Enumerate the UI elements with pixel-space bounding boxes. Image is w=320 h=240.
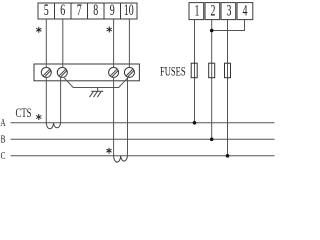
polarity asterisk near wire 9 xyxy=(107,27,112,33)
svg-text:B: B xyxy=(1,133,6,144)
wire terminal9 to S3 xyxy=(113,19,115,67)
ground xyxy=(90,88,104,98)
wire terminal2 to phase B xyxy=(211,20,213,140)
phase line B xyxy=(11,138,275,140)
screw terminal S4 xyxy=(124,67,134,77)
polarity asterisk CT-A xyxy=(36,114,41,120)
wire terminal1 to phase A xyxy=(194,20,196,123)
wire S4 to CT-C right xyxy=(127,77,129,156)
junction dot wire2-wire4 xyxy=(210,29,214,33)
svg-text:10: 10 xyxy=(124,1,134,19)
junction dot phase B xyxy=(210,138,214,142)
wire terminal6 to S2 xyxy=(62,19,64,67)
potential link trapezoid xyxy=(64,77,129,88)
svg-text:6: 6 xyxy=(60,1,65,19)
wire S2 to CT-A right xyxy=(60,77,62,123)
wire S1 to CT-A left xyxy=(45,77,47,123)
wire terminal4 jog to wire2 xyxy=(212,20,245,31)
svg-text:7: 7 xyxy=(77,1,82,19)
wire terminal5 to S1 xyxy=(45,19,47,67)
svg-text:1: 1 xyxy=(195,1,200,19)
svg-text:A: A xyxy=(0,117,6,128)
svg-text:2: 2 xyxy=(211,1,216,19)
wire terminal10 to S4 xyxy=(128,19,130,67)
CT primary loop on phase C xyxy=(114,156,128,162)
meter terminal box xyxy=(34,64,139,81)
terminal block TB1 cells 5-10 xyxy=(38,3,137,19)
svg-text:C: C xyxy=(1,150,6,161)
phase line A xyxy=(11,122,275,124)
svg-text:8: 8 xyxy=(93,1,98,19)
wire terminal3 to phase C xyxy=(227,20,229,156)
screw terminal S2 xyxy=(57,67,67,77)
wire S3 to CT-C left xyxy=(113,77,115,156)
polarity asterisk CT-C xyxy=(106,148,111,154)
terminal block TB2 cells 1-4 xyxy=(189,3,253,20)
svg-text:3: 3 xyxy=(227,1,232,19)
CT primary loop on phase A xyxy=(46,123,60,129)
junction dot phase A xyxy=(193,121,197,125)
phase line C xyxy=(11,155,275,157)
svg-text:FUSES: FUSES xyxy=(160,65,186,79)
fuse F3 xyxy=(225,63,231,77)
screw terminal S1 xyxy=(41,67,51,77)
svg-text:9: 9 xyxy=(110,1,115,19)
polarity asterisk near wire 5 xyxy=(36,27,41,33)
junction dot phase C xyxy=(226,154,230,158)
fuse F1 xyxy=(191,63,197,77)
svg-text:CTS: CTS xyxy=(16,106,32,120)
screw terminal S3 xyxy=(109,67,119,77)
svg-text:4: 4 xyxy=(243,1,248,19)
fuse F2 xyxy=(209,63,215,77)
svg-text:5: 5 xyxy=(44,1,49,19)
